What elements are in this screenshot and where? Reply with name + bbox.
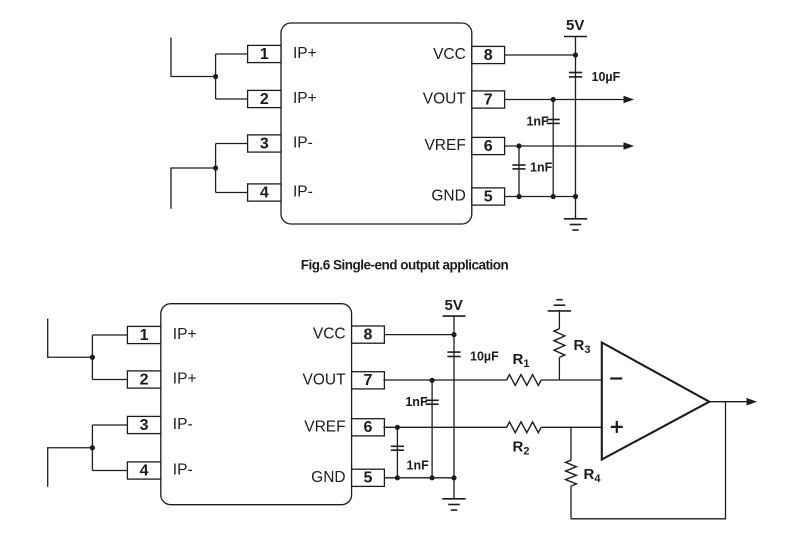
svg-text:VOUT: VOUT bbox=[423, 91, 467, 108]
resistor R4 bbox=[566, 460, 577, 486]
capacitor 10uF label bbox=[592, 70, 621, 84]
output arrow bbox=[747, 398, 758, 406]
svg-text:3: 3 bbox=[140, 417, 149, 434]
svg-text:1nF: 1nF bbox=[530, 160, 553, 174]
pin 1 number bbox=[260, 46, 269, 63]
svg-text:8: 8 bbox=[484, 47, 493, 64]
pin 5 name GND bbox=[431, 188, 465, 205]
5V supply label bbox=[566, 17, 584, 34]
pin 1 box bbox=[127, 326, 160, 343]
capacitor 10uF label bbox=[470, 350, 499, 364]
caption Fig.6 bbox=[301, 258, 509, 273]
svg-text:VREF: VREF bbox=[304, 418, 345, 435]
pin 6 name VREF bbox=[424, 137, 465, 154]
pin 3 name IP- bbox=[293, 135, 313, 152]
node junction pins 3-4 bbox=[90, 445, 95, 450]
pin 4 box bbox=[248, 184, 281, 201]
wire input stub upper bbox=[48, 319, 93, 358]
pin 4 name IP- bbox=[293, 184, 313, 201]
resistor R1 label bbox=[513, 351, 530, 370]
svg-text:IP-: IP- bbox=[293, 184, 313, 201]
pin 1 box bbox=[248, 45, 281, 62]
node junction pins 1-2 bbox=[213, 74, 218, 79]
wire rail to ground bbox=[575, 197, 577, 219]
pin 3 box bbox=[127, 416, 160, 433]
op-amp sensor IC U2 body bbox=[161, 304, 352, 505]
resistor R4 label bbox=[584, 466, 602, 485]
wire VREF branch vertical bbox=[518, 146, 520, 197]
resistor R1 bbox=[507, 375, 542, 386]
wire R2 to op-amp plus bbox=[541, 426, 602, 428]
svg-text:7: 7 bbox=[484, 91, 493, 108]
pin 2 name IP+ bbox=[173, 371, 197, 388]
svg-text:IP+: IP+ bbox=[173, 371, 197, 388]
pin 5 number bbox=[364, 470, 373, 487]
svg-text:1nF: 1nF bbox=[405, 395, 428, 409]
wire to pin 4 bbox=[92, 470, 127, 472]
svg-text:VREF: VREF bbox=[424, 137, 465, 154]
node GND-b2 bbox=[395, 475, 400, 480]
node VOUT branch bbox=[430, 378, 435, 383]
5V supply bar bbox=[564, 36, 587, 38]
resistor R2 label bbox=[513, 439, 530, 458]
svg-text:GND: GND bbox=[431, 188, 465, 205]
node GND-b2 bbox=[516, 194, 521, 199]
wire to pin 3 bbox=[216, 143, 248, 145]
wire gnd to R3 bbox=[558, 311, 560, 329]
svg-text:7: 7 bbox=[364, 372, 373, 389]
wire to pin 2 bbox=[216, 98, 248, 100]
svg-text:IP+: IP+ bbox=[293, 45, 317, 62]
wire VOUT branch vertical bbox=[552, 100, 554, 197]
pin 5 box bbox=[472, 188, 505, 205]
wire feedback bbox=[571, 402, 726, 519]
wire R3 to minus line bbox=[558, 357, 560, 380]
svg-text:VCC: VCC bbox=[433, 46, 466, 63]
pin 2 number bbox=[140, 371, 149, 388]
svg-text:5V: 5V bbox=[445, 297, 463, 314]
svg-text:R1: R1 bbox=[513, 351, 530, 370]
wire GND pin5 to rail bbox=[384, 477, 454, 479]
wire to pin 3 bbox=[92, 424, 127, 426]
inverted ground (R3 top) bbox=[548, 300, 571, 311]
pin 6 number bbox=[484, 138, 493, 155]
wire R1 to op-amp minus bbox=[541, 379, 602, 381]
ground bbox=[442, 499, 465, 510]
node GND-b1 bbox=[430, 475, 435, 480]
pin 1 number bbox=[140, 327, 149, 344]
pin 5 box bbox=[352, 469, 385, 486]
node VREF branch bbox=[516, 143, 521, 148]
wire input stub lower bbox=[171, 168, 216, 209]
wire plus line to R4 bbox=[570, 427, 572, 460]
node VCC-rail bbox=[451, 332, 456, 337]
capacitor 1nF (VOUT) label bbox=[405, 395, 428, 409]
pin 3 number bbox=[260, 135, 269, 152]
wire GND pin5 to rail bbox=[505, 196, 576, 198]
node GND-rail bbox=[451, 475, 456, 480]
op-amp plus input symbol bbox=[611, 421, 623, 433]
capacitor 1nF (VREF) bbox=[391, 446, 404, 450]
pin 3 box bbox=[248, 135, 281, 152]
node GND-b1 bbox=[551, 194, 556, 199]
wire input stub lower bbox=[48, 448, 93, 487]
svg-text:1nF: 1nF bbox=[526, 114, 549, 128]
resistor R3 bbox=[554, 329, 565, 358]
svg-text:2: 2 bbox=[140, 371, 149, 388]
node VCC-rail bbox=[573, 52, 578, 57]
wire to pin 1 bbox=[216, 53, 248, 55]
capacitor 1nF (VOUT) bbox=[426, 400, 439, 404]
pin 6 name VREF bbox=[304, 418, 345, 435]
5V supply bar bbox=[443, 315, 466, 317]
svg-text:1nF: 1nF bbox=[407, 459, 430, 473]
wire to pin 1 bbox=[92, 334, 127, 336]
svg-text:IP-: IP- bbox=[173, 416, 193, 433]
pin 2 box bbox=[127, 371, 160, 388]
pin 3 name IP- bbox=[173, 416, 193, 433]
wire VREF to R2 bbox=[383, 426, 506, 428]
svg-text:10µF: 10µF bbox=[592, 70, 621, 84]
wire 5V rail vertical bbox=[575, 37, 577, 197]
svg-text:IP-: IP- bbox=[293, 135, 313, 152]
pin 5 name GND bbox=[311, 469, 345, 486]
pin 7 number bbox=[364, 372, 373, 389]
wire to pin 2 bbox=[92, 379, 127, 381]
svg-text:2: 2 bbox=[260, 91, 269, 108]
capacitor 10uF bbox=[447, 352, 460, 356]
pin 4 box bbox=[127, 462, 160, 479]
pin 6 number bbox=[364, 419, 373, 436]
resistor R3 label bbox=[574, 337, 591, 356]
pin 1 name IP+ bbox=[173, 326, 197, 343]
pin 6 box bbox=[472, 137, 505, 154]
svg-text:4: 4 bbox=[260, 184, 269, 201]
wire VREF output bbox=[505, 145, 624, 147]
capacitor 10uF bbox=[569, 73, 582, 77]
pin 2 box bbox=[248, 90, 281, 107]
pin 4 name IP- bbox=[173, 462, 193, 479]
ground bbox=[564, 219, 587, 230]
pin 1 name IP+ bbox=[293, 45, 317, 62]
pin 8 number bbox=[364, 327, 373, 344]
wire 5V rail vertical bbox=[453, 316, 455, 478]
svg-text:10µF: 10µF bbox=[470, 350, 499, 364]
svg-text:IP-: IP- bbox=[173, 462, 193, 479]
wire op-amp output bbox=[709, 401, 746, 403]
pin 7 name VOUT bbox=[423, 91, 467, 108]
svg-text:VCC: VCC bbox=[313, 326, 346, 343]
pin 8 number bbox=[484, 47, 493, 64]
wire VCC pin8 to rail bbox=[505, 54, 576, 56]
pin 3 number bbox=[140, 417, 149, 434]
capacitor 1nF (VREF) bbox=[512, 165, 525, 169]
wire VCC pin8 to rail bbox=[384, 334, 454, 336]
wire VOUT to R1 bbox=[383, 379, 506, 381]
pin 6 box bbox=[352, 419, 385, 436]
svg-text:IP+: IP+ bbox=[173, 326, 197, 343]
VREF output arrow bbox=[624, 142, 635, 150]
node junction pins 3-4 bbox=[213, 165, 218, 170]
wire to pin 4 bbox=[216, 192, 248, 194]
capacitor 1nF (VOUT) label bbox=[526, 114, 549, 128]
svg-text:IP+: IP+ bbox=[293, 90, 317, 107]
svg-text:6: 6 bbox=[364, 419, 373, 436]
wire VREF branch vertical bbox=[396, 427, 398, 478]
pin 5 number bbox=[484, 188, 493, 205]
svg-text:1: 1 bbox=[140, 327, 149, 344]
node VOUT branch bbox=[551, 97, 556, 102]
svg-text:R2: R2 bbox=[513, 439, 530, 458]
svg-text:VOUT: VOUT bbox=[303, 371, 347, 388]
pin 4 number bbox=[260, 184, 269, 201]
wire input stub upper bbox=[171, 38, 216, 77]
node GND-rail bbox=[573, 194, 578, 199]
svg-text:4: 4 bbox=[140, 462, 149, 479]
pin 7 box bbox=[352, 372, 385, 389]
svg-text:R4: R4 bbox=[584, 466, 602, 485]
svg-text:5V: 5V bbox=[566, 17, 584, 34]
node junction pins 1-2 bbox=[90, 355, 95, 360]
wire VOUT output bbox=[505, 99, 624, 101]
pin 8 name VCC bbox=[433, 46, 466, 63]
pin 2 name IP+ bbox=[293, 90, 317, 107]
node VREF branch bbox=[395, 425, 400, 430]
wire pin1-pin2 tie bbox=[215, 54, 217, 99]
op-amp U3 bbox=[602, 343, 710, 460]
pin 4 number bbox=[140, 462, 149, 479]
pin 8 name VCC bbox=[313, 326, 346, 343]
pin 7 number bbox=[484, 91, 493, 108]
svg-text:R3: R3 bbox=[574, 337, 591, 356]
pin 2 number bbox=[260, 91, 269, 108]
svg-text:1: 1 bbox=[260, 46, 269, 63]
svg-text:5: 5 bbox=[364, 470, 373, 487]
VOUT output arrow bbox=[624, 96, 635, 104]
svg-text:5: 5 bbox=[484, 188, 493, 205]
5V supply label bbox=[445, 297, 463, 314]
pin 7 name VOUT bbox=[303, 371, 347, 388]
capacitor 1nF (VREF) label bbox=[407, 459, 430, 473]
op-amp minus input symbol bbox=[610, 377, 622, 379]
wire rail to ground bbox=[453, 478, 455, 499]
wire pin1-pin2 tie bbox=[91, 335, 93, 380]
op-amp sensor IC U1 body bbox=[281, 23, 472, 224]
pin 7 box bbox=[472, 91, 505, 108]
capacitor 1nF (VOUT) bbox=[547, 120, 560, 124]
pin 8 box bbox=[352, 326, 385, 343]
svg-text:8: 8 bbox=[364, 327, 373, 344]
resistor R2 bbox=[507, 422, 542, 433]
wire pin3-pin4 tie bbox=[215, 144, 217, 193]
capacitor 1nF (VREF) label bbox=[530, 160, 553, 174]
svg-text:6: 6 bbox=[484, 138, 493, 155]
wire R4 to feedback bbox=[570, 486, 572, 519]
svg-text:3: 3 bbox=[260, 135, 269, 152]
svg-text:GND: GND bbox=[311, 469, 345, 486]
svg-text:Fig.6 Single-end output applic: Fig.6 Single-end output application bbox=[301, 258, 509, 273]
pin 8 box bbox=[472, 46, 505, 63]
wire VOUT branch vertical bbox=[431, 380, 433, 478]
wire pin3-pin4 tie bbox=[91, 425, 93, 471]
